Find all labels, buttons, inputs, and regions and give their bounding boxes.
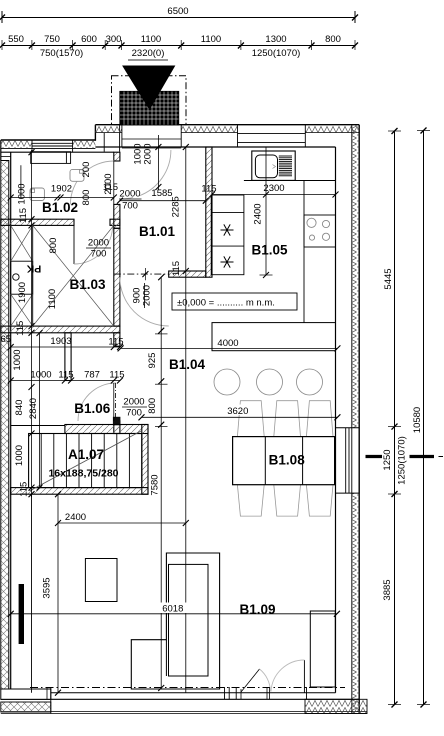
dining chairs circles [214, 369, 240, 395]
B1.06 right wall with door opening 383-421 [114, 333, 120, 347]
stove [304, 215, 336, 247]
bottom wall window band [51, 692, 336, 694]
svg-text:700: 700 [126, 408, 142, 419]
svg-text:1250: 1250 [382, 449, 393, 470]
svg-text:2000: 2000 [143, 143, 154, 164]
B1.06 partition x 64.9-71.1 [65, 333, 71, 381]
svg-text:16x188,75/280: 16x188,75/280 [48, 468, 118, 480]
wall right of B1.02 (vertical, with door opening 161-204.4) [114, 152, 120, 161]
dining chairs trapezoids top [237, 401, 333, 516]
svg-text:2300: 2300 [263, 183, 284, 194]
svg-text:2840: 2840 [28, 398, 39, 419]
svg-text:115: 115 [18, 208, 29, 223]
hall depth dim 2285 x=183.5 [185, 147, 187, 693]
6018 dim line [11, 613, 337, 615]
entrance door dim line x=158.4 [157, 135, 159, 190]
kitchen left tall cabinet with fridge/freezer asterisks [211, 195, 244, 275]
svg-text:6018: 6018 [162, 604, 183, 615]
svg-text:2400: 2400 [65, 512, 86, 523]
svg-text:B1.08: B1.08 [269, 453, 306, 468]
svg-text:115: 115 [109, 370, 124, 381]
svg-text:1250(1070): 1250(1070) [397, 436, 408, 485]
svg-text:2320(0): 2320(0) [132, 48, 165, 59]
svg-text:±0,000 = .......... m n.m.: ±0,000 = .......... m n.m. [177, 298, 275, 309]
B1.06 bottom wall / stairs top [65, 425, 148, 434]
stair direction line [30, 431, 142, 491]
kitchen top counter [244, 180, 336, 182]
svg-text:3595: 3595 [42, 577, 53, 598]
stairs bottom wall [11, 488, 148, 495]
french door leaves [241, 669, 260, 692]
left interior chain x=31.5 [31, 150, 33, 497]
2400 dim line lower [58, 522, 186, 524]
right exterior wall [358, 125, 360, 714]
entrance doormat (crosshatched block) [120, 92, 179, 125]
dining table [233, 437, 335, 485]
B1.03 room diagonals [33, 225, 114, 326]
bottom mullion between window and french door [224, 687, 226, 699]
svg-text:115: 115 [201, 184, 216, 195]
svg-text:550: 550 [8, 34, 24, 45]
entrance door opening threshold [122, 138, 181, 140]
hall bottom wall with door 900 [169, 271, 206, 277]
sill underline of 2320(0) [128, 59, 168, 61]
svg-text:1000: 1000 [14, 445, 25, 466]
wall bottom of B1.03 [1, 326, 120, 333]
svg-text:PK: PK [26, 263, 41, 275]
row 1000/115/787/115 [11, 380, 120, 382]
svg-text:2000: 2000 [103, 173, 114, 194]
svg-text:925: 925 [147, 353, 158, 369]
svg-text:1000: 1000 [12, 349, 23, 370]
B1.02 basin left [30, 188, 44, 201]
svg-text:4000: 4000 [217, 338, 238, 349]
coffee table / armchair [85, 559, 117, 602]
svg-text:1903: 1903 [50, 336, 71, 347]
svg-text:2000: 2000 [88, 238, 109, 249]
svg-text:2000: 2000 [142, 285, 153, 306]
right inner dim line (5445/1250/3885) [394, 131, 396, 705]
svg-text:1900: 1900 [17, 282, 28, 303]
top main wall [95, 124, 359, 126]
svg-text:115: 115 [108, 337, 123, 348]
3595 vertical line x=58 [57, 494, 59, 693]
4000 dim line [121, 347, 338, 349]
svg-text:1100: 1100 [141, 34, 161, 45]
entrance arrow (filled triangle) [123, 66, 175, 109]
svg-text:800: 800 [48, 238, 59, 254]
left wardrobe strip with X + PK box [32, 225, 34, 326]
svg-text:2400: 2400 [253, 203, 264, 224]
svg-text:600: 600 [81, 34, 97, 45]
svg-text:1902: 1902 [51, 184, 72, 195]
svg-text:1585: 1585 [151, 188, 172, 199]
svg-text:787: 787 [84, 370, 100, 381]
radiator on left wall [19, 584, 24, 644]
B1.02 counter band along top wall [31, 152, 71, 164]
svg-text:115: 115 [171, 261, 182, 276]
TV cabinet right [310, 611, 335, 687]
dimension line 6500 [2, 17, 355, 19]
svg-text:1000: 1000 [17, 183, 28, 204]
svg-text:3885: 3885 [382, 579, 393, 600]
dimension chain row2 [2, 45, 355, 47]
svg-text:1100: 1100 [201, 34, 221, 45]
wall B1.02/B1.03 divider (horizontal, door opening 74-110) [1, 219, 74, 225]
svg-text:750: 750 [44, 34, 60, 45]
sink unit [252, 151, 295, 180]
bottom-right wall block [305, 699, 367, 713]
svg-text:6500: 6500 [167, 6, 188, 17]
dash-dot marks at B1.06 door [115, 383, 117, 418]
svg-text:B1.01: B1.01 [139, 224, 176, 239]
svg-text:1300: 1300 [265, 34, 286, 45]
hall width dim 1585 [120, 200, 206, 202]
svg-text:300: 300 [106, 34, 122, 45]
svg-text:115: 115 [19, 482, 30, 497]
svg-text:10580: 10580 [412, 407, 423, 433]
wall right of B1.03 (vertical) [114, 228, 120, 326]
svg-text:115: 115 [15, 321, 26, 336]
kitchen bar [212, 323, 336, 351]
3620 dim line [142, 416, 338, 418]
svg-text:800: 800 [81, 190, 92, 206]
door B1.03 (700) in top wall: leaf + arc [73, 225, 75, 264]
svg-text:1250(1070): 1250(1070) [252, 48, 301, 59]
kitchen 2400 vertical dim x=266 [265, 147, 267, 275]
bottom dash-dot section line [30, 687, 345, 689]
kitchen 2300 dim [212, 194, 336, 196]
svg-text:1100: 1100 [47, 289, 58, 309]
B1.02 washbasin right [70, 169, 84, 181]
svg-text:B1.06: B1.06 [74, 401, 111, 416]
svg-text:700: 700 [122, 201, 138, 212]
svg-text:65: 65 [1, 334, 12, 345]
1903 dim row under B1.03 wall [11, 346, 120, 348]
svg-text:840: 840 [14, 400, 25, 416]
svg-text:200: 200 [81, 162, 92, 178]
svg-text:5445: 5445 [383, 268, 394, 289]
door B1.02 (800) leaf+arc [70, 161, 113, 204]
svg-text:A1.07: A1.07 [68, 447, 104, 462]
window 750(1570) in recessed wall [32, 142, 73, 144]
entrance door arc [122, 150, 171, 199]
svg-text:800: 800 [147, 398, 158, 414]
svg-text:7580: 7580 [150, 474, 161, 495]
hall bottom door (900) dash-dot + arc [114, 273, 169, 275]
svg-text:750(1570): 750(1570) [40, 48, 83, 59]
entrance marker: dash-dot canopy outline [112, 76, 187, 125]
section line marks at right [366, 455, 383, 458]
kitchen window 1250(1070) in top wall [238, 133, 306, 135]
svg-text:2000: 2000 [119, 189, 140, 200]
svg-text:700: 700 [91, 249, 107, 260]
sofa (L-shaped with chaise) [131, 553, 219, 689]
right outer dim line (10580) [423, 131, 425, 705]
right wall window 1250(1070) [336, 427, 360, 429]
hall right wall (to kitchen) [206, 147, 212, 277]
stairs right wall [142, 425, 148, 495]
level box ±0,000 [172, 293, 297, 310]
top-left recessed wall [1, 139, 96, 141]
bottom-left wall block [1, 689, 51, 699]
B1.02 width dim line [11, 197, 114, 199]
svg-text:B1.05: B1.05 [251, 243, 288, 258]
svg-text:115: 115 [58, 370, 73, 381]
B1.02 side cabinet divider line [20, 165, 22, 197]
svg-text:3620: 3620 [227, 406, 248, 417]
svg-text:B1.04: B1.04 [169, 357, 206, 372]
left exterior wall with crosshatch insulation [1, 161, 9, 690]
svg-text:800: 800 [325, 34, 341, 45]
svg-text:B1.09: B1.09 [239, 602, 275, 617]
door B1.06 (700) arc [78, 383, 116, 421]
kitchen right counter strip [303, 181, 305, 323]
svg-text:B1.02: B1.02 [42, 200, 78, 215]
2285/7580 vertical chain x=161.2 [160, 277, 162, 688]
svg-text:2000: 2000 [123, 397, 144, 408]
step corner at x=95.4 [94, 125, 96, 141]
svg-text:2285: 2285 [170, 196, 181, 217]
svg-text:B1.03: B1.03 [69, 277, 106, 292]
svg-text:1000: 1000 [30, 370, 51, 381]
2840 dim line x=39.5 [39, 333, 41, 488]
staircase A1.07 treads [29, 434, 142, 488]
vertical line below stairs x=31.5 [31, 494, 33, 693]
